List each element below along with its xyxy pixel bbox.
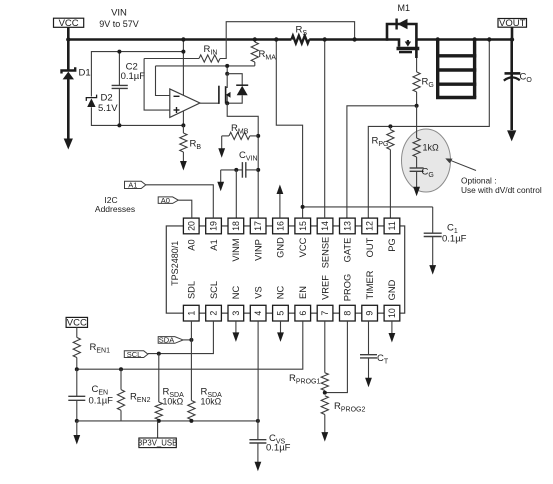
- node I2C Addresses label: [95, 195, 135, 214]
- resistor R_PG: [372, 124, 395, 218]
- pin 10 GND: [384, 279, 400, 321]
- wire VS pin4 down: [257, 321, 259, 421]
- zener diode D1: [62, 67, 91, 79]
- svg-text:19: 19: [209, 221, 219, 231]
- resistor R_B: [180, 125, 202, 152]
- svg-text:10kΩ: 10kΩ: [201, 397, 222, 407]
- zener diode D2 5.1V: [86, 93, 118, 115]
- wire C_VIN node to VINM pin: [235, 170, 237, 218]
- svg-text:0.1µF: 0.1µF: [121, 71, 146, 82]
- resistor R_G: [413, 58, 434, 106]
- ground arrow below C_G: [413, 171, 420, 196]
- pin 5 NC: [273, 286, 289, 321]
- wire VIN power rail left segment: [68, 38, 387, 41]
- node A0 tag: [158, 196, 192, 218]
- svg-text:SDA: SDA: [159, 336, 174, 345]
- svg-text:6: 6: [298, 311, 308, 316]
- pin 8 PROG: [340, 274, 356, 321]
- resistor R_EN1: [73, 327, 110, 369]
- wire EN net: [75, 321, 303, 371]
- wire op-amp plus input frame: [144, 59, 170, 111]
- ground arrow below C_T: [365, 358, 372, 387]
- capacitor C2 0.1uF: [112, 50, 146, 128]
- wire C2 block frame: [91, 52, 183, 126]
- pin 16 GND: [273, 218, 289, 258]
- svg-text:GND: GND: [387, 279, 397, 300]
- node VCC enable: [66, 317, 87, 328]
- wire PROG pin8 to divider: [323, 321, 348, 395]
- pin 4 VS: [250, 286, 266, 321]
- svg-text:OUT: OUT: [365, 237, 375, 257]
- svg-text:0.1µF: 0.1µF: [266, 443, 291, 454]
- svg-text:TPS2480/1: TPS2480/1: [170, 241, 180, 286]
- pin 9 TIMER: [362, 270, 378, 321]
- wire SDL pin1 to pullup: [190, 321, 192, 401]
- load resistor bank: [436, 37, 477, 97]
- pin 13 GATE: [340, 218, 356, 262]
- capacitor C_EN 0.1uF: [68, 369, 113, 423]
- wire VCC pin15 to rail: [274, 37, 303, 218]
- ground arrow below R_PROG2: [321, 415, 328, 442]
- capacitor C_VS 0.1uF: [249, 421, 290, 454]
- svg-text:18: 18: [231, 221, 241, 231]
- svg-text:SDL: SDL: [186, 281, 196, 299]
- svg-text:TIMER: TIMER: [365, 270, 375, 299]
- pin 18 VINM: [228, 218, 244, 262]
- pin 6 EN: [295, 286, 311, 321]
- svg-text:EN: EN: [298, 286, 308, 299]
- svg-text:A0: A0: [161, 196, 170, 205]
- svg-text:SENSE: SENSE: [320, 237, 330, 269]
- svg-text:8: 8: [342, 311, 352, 316]
- ground arrow below D1: [64, 79, 73, 150]
- svg-text:VS: VS: [253, 286, 263, 298]
- ground arrow pin16 GND: [277, 185, 284, 219]
- pin 7 VREF: [317, 275, 333, 321]
- svg-text:GATE: GATE: [343, 238, 353, 263]
- svg-text:A1: A1: [209, 239, 219, 250]
- capacitor C_T: [360, 321, 389, 366]
- wire drain node: [225, 64, 229, 76]
- pin 2 SCL: [206, 281, 222, 321]
- pin 12 OUT: [362, 218, 378, 257]
- svg-text:5.1V: 5.1V: [98, 103, 118, 114]
- wire rail drop to C2 top and R_B: [181, 37, 185, 127]
- svg-text:1kΩ: 1kΩ: [423, 143, 440, 153]
- wire gate net to GATE pin: [347, 104, 419, 218]
- resistor R_SDA sda pullup: [188, 387, 222, 420]
- op IC TPS2480/1 body: [166, 226, 404, 313]
- svg-text:3: 3: [231, 311, 241, 316]
- svg-text:4: 4: [253, 311, 263, 316]
- node A1 tag: [125, 181, 214, 219]
- pin 1 SDL: [183, 281, 199, 321]
- svg-text:VINM: VINM: [231, 238, 241, 261]
- svg-text:17: 17: [253, 221, 263, 231]
- arrow pin3 NC: [233, 321, 240, 342]
- wire OUT net to rail: [368, 37, 491, 218]
- wire VOUT to rail: [510, 27, 514, 42]
- svg-text:D2: D2: [101, 93, 113, 104]
- svg-text:Addresses: Addresses: [95, 204, 135, 214]
- wire VCC to rail: [66, 27, 70, 41]
- ground arrow at C_VIN: [217, 170, 224, 191]
- resistor R_EN2: [117, 369, 150, 421]
- resistor R_S sense: [291, 25, 309, 44]
- node 3P3V_USB: [138, 421, 177, 448]
- svg-text:A1: A1: [128, 181, 137, 190]
- resistor R_PROG1: [289, 321, 328, 391]
- optional annotation: [445, 158, 542, 195]
- capacitor C_O output: [504, 40, 533, 85]
- svg-text:12: 12: [365, 221, 375, 231]
- op-amp U1: [170, 89, 200, 118]
- arrow pin5 NC: [277, 321, 284, 342]
- svg-text:20: 20: [186, 221, 196, 231]
- svg-text:15: 15: [298, 221, 308, 231]
- svg-text:9: 9: [365, 311, 375, 316]
- svg-text:0.1µF: 0.1µF: [89, 396, 114, 407]
- diode across Q1: [225, 74, 248, 106]
- svg-text:1: 1: [186, 311, 196, 316]
- svg-text:VIN: VIN: [111, 8, 127, 19]
- svg-text:SCL: SCL: [209, 281, 219, 299]
- svg-text:VCC: VCC: [67, 318, 87, 329]
- svg-text:Use with dV/dt control: Use with dV/dt control: [461, 185, 542, 195]
- ground arrow below C_O: [507, 79, 516, 142]
- svg-text:14: 14: [320, 221, 330, 231]
- resistor R_SDA scl pullup: [155, 354, 184, 420]
- ground arrow below C_VS: [255, 443, 262, 471]
- ground arrow below R_B: [180, 152, 187, 171]
- svg-text:Optional :: Optional :: [461, 176, 497, 186]
- pin 3 NC: [228, 286, 244, 321]
- svg-text:10: 10: [387, 308, 397, 318]
- svg-text:SCL: SCL: [127, 350, 142, 359]
- pin 14 SENSE: [317, 218, 333, 268]
- optional dV/dt network ellipse: [402, 129, 451, 192]
- node VOUT output: [498, 18, 527, 29]
- transistor M1 pass FET: [387, 3, 419, 58]
- wire 3P3V rail: [77, 419, 260, 423]
- svg-text:M1: M1: [398, 3, 411, 13]
- pin 11 PG: [384, 218, 400, 252]
- ground arrow below C_EN: [73, 421, 80, 445]
- node SCL tag: [124, 321, 213, 359]
- wire source to VINP pin: [227, 103, 260, 218]
- ground arrow at R_MB: [218, 136, 225, 158]
- pin 20 A0: [183, 218, 199, 251]
- svg-text:16: 16: [275, 221, 285, 231]
- svg-text:13: 13: [342, 221, 352, 231]
- node VIN label: [99, 8, 139, 30]
- capacitor C_1 0.1uF: [301, 205, 467, 245]
- wire op-amp minus input frame: [156, 66, 255, 96]
- svg-text:3P3V_USB: 3P3V_USB: [138, 438, 177, 447]
- wire R_IN to downstream rail bridge: [220, 22, 357, 59]
- pin 19 A1: [206, 218, 222, 251]
- pin 17 VINP: [250, 218, 266, 261]
- pin 15 VCC: [295, 218, 311, 257]
- svg-text:2: 2: [209, 311, 219, 316]
- svg-text:5: 5: [275, 311, 285, 316]
- svg-text:NC: NC: [276, 286, 286, 300]
- transistor Q1 sense MOSFET: [200, 74, 231, 104]
- resistor R_IN: [144, 44, 220, 62]
- resistor R_MA: [251, 37, 276, 66]
- svg-text:10kΩ: 10kΩ: [163, 397, 184, 407]
- svg-text:7: 7: [320, 311, 330, 316]
- capacitor C_G: [410, 157, 434, 179]
- svg-text:9V to 57V: 9V to 57V: [99, 19, 139, 29]
- resistor 1k in ellipse: [413, 106, 439, 157]
- svg-text:A0: A0: [186, 239, 196, 250]
- svg-text:11: 11: [387, 221, 397, 230]
- capacitor C_VIN: [221, 150, 259, 178]
- svg-text:VCC: VCC: [298, 237, 308, 257]
- svg-text:VINP: VINP: [253, 239, 263, 261]
- wire SENSE pin14 to rail: [323, 37, 327, 218]
- svg-text:D1: D1: [79, 68, 91, 79]
- svg-text:PROG: PROG: [343, 274, 353, 301]
- svg-text:NC: NC: [231, 286, 241, 300]
- resistor R_PROG2: [321, 396, 365, 415]
- svg-text:0.1µF: 0.1µF: [442, 234, 467, 245]
- wire rail to D1: [67, 40, 70, 72]
- wire VOUT power rail right segment: [416, 38, 512, 41]
- ground arrow pin10 GND: [389, 321, 396, 343]
- svg-text:PG: PG: [387, 238, 397, 251]
- ground arrow below C_1: [429, 237, 436, 275]
- node SDA tag: [158, 336, 193, 345]
- svg-text:GND: GND: [276, 237, 286, 258]
- resistor R_MB: [222, 123, 259, 140]
- node VCC input: [54, 18, 84, 29]
- svg-text:VREF: VREF: [320, 275, 330, 300]
